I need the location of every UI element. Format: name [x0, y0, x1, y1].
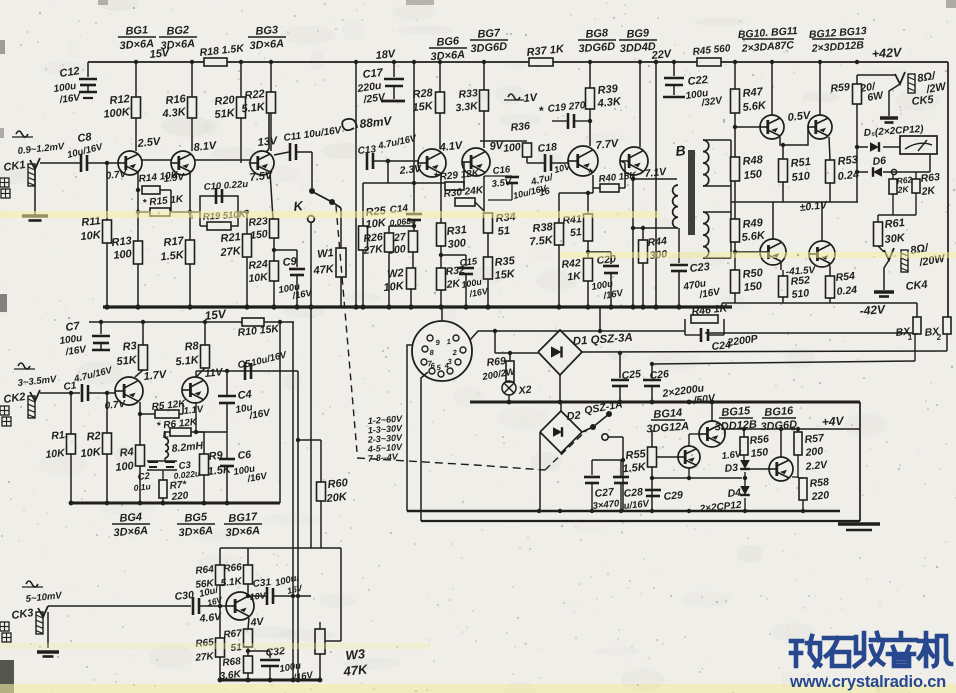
svg-text:C17: C17 — [362, 67, 384, 81]
svg-text:BG8: BG8 — [585, 27, 609, 41]
svg-text:R52: R52 — [790, 274, 811, 288]
svg-text:R22: R22 — [244, 88, 265, 102]
svg-text:C8: C8 — [77, 131, 93, 145]
svg-text:CK4: CK4 — [905, 279, 928, 293]
svg-text:56K: 56K — [195, 578, 215, 591]
svg-text:220: 220 — [810, 489, 830, 503]
svg-text:C16: C16 — [492, 164, 511, 177]
svg-text:X2: X2 — [517, 384, 532, 397]
svg-text:0.7V: 0.7V — [104, 399, 127, 412]
svg-text:5.6K: 5.6K — [741, 230, 766, 244]
svg-text:C4: C4 — [237, 389, 252, 402]
svg-text:1.5K: 1.5K — [622, 461, 647, 475]
svg-text:0.24: 0.24 — [836, 284, 858, 298]
svg-text:-42V: -42V — [859, 302, 886, 318]
svg-text:51: 51 — [569, 226, 582, 239]
svg-text:C30: C30 — [174, 589, 195, 603]
svg-text:R58: R58 — [809, 476, 830, 490]
svg-text:20K: 20K — [325, 491, 348, 505]
svg-text:220: 220 — [170, 490, 189, 503]
svg-text:2K: 2K — [920, 184, 937, 198]
svg-text:*: * — [539, 104, 544, 118]
svg-text:51K: 51K — [116, 354, 138, 368]
svg-text:R60: R60 — [327, 477, 349, 491]
svg-text:5.6K: 5.6K — [742, 100, 767, 114]
svg-text:+42V: +42V — [871, 45, 903, 61]
svg-text:D6: D6 — [872, 155, 887, 168]
svg-text:5.1K: 5.1K — [175, 354, 200, 368]
svg-text:R42: R42 — [561, 257, 582, 271]
svg-text:3DG6D: 3DG6D — [470, 41, 507, 56]
svg-text:100: 100 — [503, 141, 522, 155]
svg-text:15K: 15K — [412, 100, 434, 114]
svg-text:51K: 51K — [214, 107, 236, 121]
svg-text:C5: C5 — [237, 359, 251, 371]
svg-text:510: 510 — [791, 170, 811, 184]
svg-text:C9: C9 — [282, 255, 298, 268]
svg-text:4.6V: 4.6V — [198, 611, 223, 625]
svg-text:C27: C27 — [594, 486, 616, 500]
svg-text:R48: R48 — [742, 154, 764, 168]
svg-text:BG17: BG17 — [228, 511, 258, 525]
svg-text:R51: R51 — [790, 156, 811, 170]
svg-text:R67: R67 — [223, 628, 243, 641]
svg-text:51: 51 — [497, 225, 510, 238]
svg-text:BG1: BG1 — [125, 24, 148, 38]
svg-text:R35: R35 — [494, 255, 516, 269]
svg-text:R39: R39 — [597, 83, 619, 97]
svg-text:C22: C22 — [687, 74, 708, 88]
svg-text:BG9: BG9 — [626, 27, 650, 41]
svg-text:3D×6A: 3D×6A — [249, 38, 284, 52]
svg-text:10K: 10K — [248, 271, 270, 285]
svg-text:+4V: +4V — [821, 414, 844, 429]
svg-text:R28: R28 — [412, 87, 434, 101]
svg-text:BG5: BG5 — [184, 511, 208, 525]
svg-text:3DG6D: 3DG6D — [578, 41, 615, 56]
svg-text:BG6: BG6 — [436, 35, 460, 49]
svg-text:R12: R12 — [109, 93, 130, 107]
svg-text:47K: 47K — [312, 263, 335, 277]
svg-text:R44: R44 — [647, 235, 668, 249]
svg-text:D4: D4 — [727, 487, 742, 500]
svg-text:D3: D3 — [724, 462, 739, 475]
svg-text:150: 150 — [743, 168, 763, 182]
svg-text:R20: R20 — [214, 94, 236, 108]
svg-text:www.crystalradio.cn: www.crystalradio.cn — [789, 673, 946, 691]
svg-text:BG14: BG14 — [653, 407, 683, 421]
svg-text:C25: C25 — [621, 368, 642, 382]
svg-text:R31: R31 — [446, 224, 467, 238]
svg-text:R13: R13 — [111, 235, 132, 249]
svg-text:R8: R8 — [184, 340, 200, 353]
svg-text:2K: 2K — [896, 184, 910, 195]
svg-text:R2: R2 — [86, 430, 101, 443]
svg-text:R59: R59 — [830, 81, 851, 95]
svg-text:30K: 30K — [884, 232, 906, 246]
svg-text:0.7V: 0.7V — [105, 169, 128, 182]
svg-text:27K: 27K — [362, 243, 385, 257]
svg-text:R57: R57 — [804, 432, 826, 446]
svg-text:R9: R9 — [208, 449, 224, 462]
svg-text:3DD4D: 3DD4D — [619, 41, 656, 55]
svg-text:R61: R61 — [884, 217, 905, 231]
svg-text:D2: D2 — [566, 410, 581, 423]
svg-text:150: 150 — [750, 446, 769, 460]
svg-text:27K: 27K — [194, 651, 215, 664]
svg-text:3D×6A: 3D×6A — [119, 38, 154, 52]
svg-text:R21: R21 — [220, 231, 241, 245]
svg-text:R50: R50 — [742, 267, 764, 281]
svg-text:10K: 10K — [383, 280, 405, 294]
svg-text:3D×6A: 3D×6A — [430, 49, 465, 63]
svg-text:R49: R49 — [742, 217, 764, 231]
svg-text:10K: 10K — [80, 229, 102, 243]
svg-text:C28: C28 — [623, 486, 644, 500]
svg-text:R56: R56 — [749, 433, 770, 447]
svg-text:10K: 10K — [80, 446, 102, 460]
svg-text:5.1K: 5.1K — [241, 101, 266, 115]
svg-text:C29: C29 — [663, 489, 684, 503]
svg-text:200: 200 — [804, 445, 824, 459]
svg-text:3.5V: 3.5V — [491, 177, 512, 190]
svg-text:BG3: BG3 — [255, 24, 278, 38]
svg-text:2.2V: 2.2V — [804, 459, 829, 473]
svg-text:R63: R63 — [920, 171, 941, 185]
svg-text:100: 100 — [113, 248, 133, 262]
svg-text:B: B — [675, 142, 687, 159]
svg-text:1.1V: 1.1V — [183, 404, 204, 417]
svg-text:C6: C6 — [237, 449, 252, 462]
svg-text:R54: R54 — [835, 270, 856, 284]
svg-text:BG7: BG7 — [477, 27, 501, 41]
svg-text:R69: R69 — [486, 355, 507, 369]
svg-text:10K: 10K — [365, 217, 387, 231]
svg-text:R24: R24 — [248, 258, 269, 272]
svg-text:R3: R3 — [122, 340, 137, 353]
svg-text:R16: R16 — [165, 93, 187, 107]
svg-text:1.6V: 1.6V — [721, 449, 742, 462]
svg-text:R53: R53 — [837, 154, 858, 168]
svg-text:R47: R47 — [742, 86, 764, 100]
svg-text:0.5V: 0.5V — [787, 110, 812, 124]
svg-text:R1: R1 — [51, 429, 66, 442]
svg-text:R38: R38 — [532, 221, 554, 235]
svg-text:3.3K: 3.3K — [455, 100, 480, 114]
svg-text:C7: C7 — [65, 320, 81, 334]
svg-text:C15: C15 — [459, 256, 478, 269]
svg-text:BG15: BG15 — [721, 405, 751, 419]
svg-text:BG2: BG2 — [166, 24, 189, 38]
svg-text:11V: 11V — [204, 366, 224, 380]
svg-text:15V: 15V — [204, 307, 228, 323]
svg-text:R68: R68 — [222, 656, 242, 669]
svg-text:150: 150 — [743, 280, 763, 294]
svg-text:1.7V: 1.7V — [143, 369, 168, 383]
svg-text:1.5K: 1.5K — [160, 249, 185, 263]
svg-text:27K: 27K — [219, 245, 242, 259]
svg-text:BG16: BG16 — [764, 405, 794, 419]
svg-text:3D×6A: 3D×6A — [160, 38, 195, 52]
svg-text:3D×6A: 3D×6A — [113, 525, 148, 539]
svg-text:R17: R17 — [163, 235, 185, 249]
svg-text:0.1u: 0.1u — [133, 481, 152, 493]
svg-text:510: 510 — [791, 287, 810, 301]
svg-text:R55: R55 — [625, 448, 647, 462]
svg-text:5.1K: 5.1K — [220, 576, 243, 589]
svg-text:W1: W1 — [317, 247, 335, 261]
